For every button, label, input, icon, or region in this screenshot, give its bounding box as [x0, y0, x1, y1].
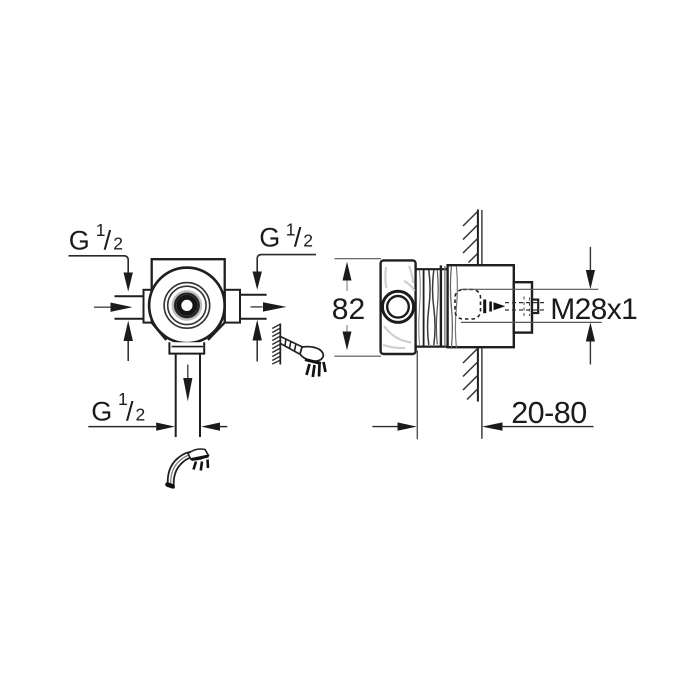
- back body port circle inner: [387, 296, 409, 318]
- tail line below left lower arrow: [127, 341, 129, 361]
- leader line G1/2 top-left: [69, 256, 129, 273]
- dim 82 extension line top: [335, 258, 382, 260]
- handshower icon: handle end cap: [168, 485, 173, 487]
- spigot tip: [532, 300, 538, 313]
- label G1/2 top-middle: [259, 220, 313, 253]
- outlet flow line right: [251, 306, 263, 308]
- dark center ring: [179, 297, 195, 313]
- handshower icon: curved handle: [168, 451, 196, 487]
- inlet flow line left: [94, 306, 111, 308]
- svg-text:G: G: [69, 226, 90, 256]
- shower icon wall bracket: hatch strip: [272, 325, 279, 365]
- dim 82 arrow down: [343, 332, 352, 351]
- shower icon head: [300, 347, 323, 362]
- svg-text:2: 2: [303, 231, 313, 251]
- arrow up to left port bottom: [124, 321, 133, 341]
- dim 20-80 arrow right-pointing: [398, 422, 417, 430]
- left port tube: [115, 296, 144, 319]
- bottom dimension arrow left-pointing: [201, 423, 220, 431]
- tail line below right lower arrow: [256, 340, 258, 361]
- svg-text:2: 2: [113, 234, 123, 254]
- dim 20-80 arrow left-pointing: [482, 422, 503, 430]
- wall upper right line: [481, 210, 483, 264]
- dim M28x1 line top: [589, 247, 591, 271]
- dim M28x1 extension bottom: [461, 321, 602, 323]
- hidden spindle dashed lines: [505, 303, 546, 310]
- shower icon wall face line: [279, 324, 281, 365]
- svg-text:/: /: [104, 226, 112, 256]
- left port flange: [144, 290, 152, 323]
- label G1/2 top-left: [69, 220, 123, 256]
- flange band left vertical: [423, 269, 425, 346]
- back body: [381, 260, 416, 354]
- right port flange: [225, 290, 240, 323]
- wall upper left line: [477, 210, 479, 265]
- ring r23: [164, 283, 210, 329]
- dim 20-80 extension vertical: [416, 351, 418, 440]
- back body port circle outer: [382, 291, 413, 322]
- inlet flow arrow left: [111, 303, 133, 312]
- bottom outlet flow line: [187, 365, 189, 379]
- dim 20-80 line right: [502, 426, 593, 428]
- label G1/2 bottom: [91, 389, 145, 427]
- dim M28x1 arrow up: [586, 322, 595, 341]
- ring r12: [175, 294, 199, 318]
- dim M28x1 extension top: [461, 288, 598, 290]
- arrow up to right port bottom: [253, 320, 262, 341]
- spindle bar 1: [483, 300, 486, 314]
- wall lower left line: [477, 348, 479, 402]
- spindle arrow: [494, 302, 506, 310]
- body main circle: [149, 268, 225, 344]
- svg-text:M28x1: M28x1: [550, 293, 637, 326]
- svg-text:G: G: [259, 223, 280, 253]
- dim M28x1 line bottom: [589, 342, 591, 365]
- back body shading: [383, 266, 415, 348]
- outlet flow arrow right: [263, 302, 287, 311]
- leader line G1/2 top-middle: [257, 255, 316, 272]
- shower icon spray jets: [307, 362, 326, 377]
- main cylinder: [448, 265, 514, 347]
- dim M28x1 arrow down: [586, 270, 595, 289]
- bottom-right chamfer: [208, 323, 225, 340]
- wall lower hatching: [463, 349, 478, 400]
- dim 20-80 line left: [372, 426, 397, 428]
- dim 82 arrow up: [343, 262, 352, 281]
- bottom outlet flow arrow: [183, 378, 192, 401]
- bottom dimension line left segment: [88, 426, 156, 428]
- arrow down to right port top: [253, 272, 262, 290]
- spindle bar 2: [489, 302, 492, 312]
- bottom dimension line right segment: [220, 426, 227, 428]
- dim 82 extension line bottom: [334, 355, 381, 357]
- right port tube: [240, 295, 267, 319]
- wall upper hatching: [463, 212, 478, 263]
- svg-text:2: 2: [136, 404, 146, 424]
- spigot: [514, 282, 532, 332]
- shower icon arm cone: [281, 337, 304, 355]
- shaded ring: [173, 292, 201, 320]
- svg-text:/: /: [294, 223, 302, 253]
- flange band outline: [416, 269, 448, 346]
- hidden cartridge dashed outline: [455, 290, 481, 320]
- wall lower right line: [481, 348, 483, 439]
- shower icon nozzle band: [305, 360, 321, 364]
- dim 82 line lower stub: [346, 325, 348, 332]
- svg-text:/: /: [126, 396, 134, 426]
- bottom flange: [169, 342, 204, 353]
- handshower icon: spray jets: [194, 460, 209, 471]
- bottom port tube: [176, 354, 200, 437]
- dim 82 line upper stub: [346, 281, 348, 292]
- bottom-left chamfer: [152, 323, 167, 340]
- bottom dimension arrow right-pointing: [156, 423, 175, 431]
- arrow down to left port top: [124, 273, 133, 292]
- bottom flange step line: [172, 346, 203, 348]
- cylinder wavy texture: [450, 267, 452, 348]
- svg-text:20-80: 20-80: [511, 396, 587, 430]
- knurled ring vertical: [440, 265, 442, 347]
- ring r19: [168, 286, 206, 324]
- svg-text:82: 82: [332, 293, 365, 326]
- flange band wavy texture: [428, 270, 431, 345]
- handshower icon: head: [188, 449, 209, 460]
- svg-text:G: G: [91, 396, 112, 426]
- handshower icon: nozzle band: [192, 456, 209, 460]
- valve body square plate: [152, 259, 225, 322]
